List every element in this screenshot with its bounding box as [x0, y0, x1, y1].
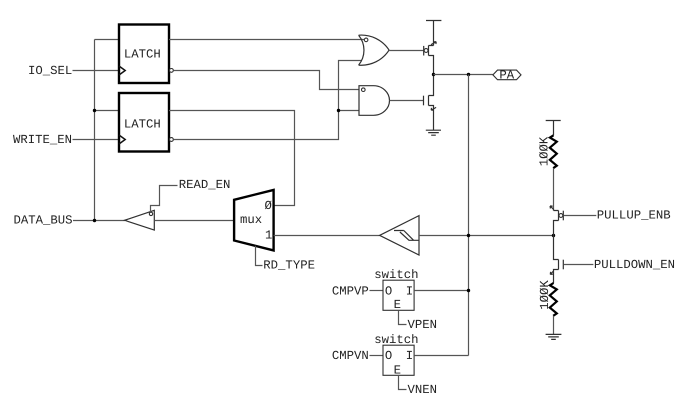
- wire bus to U1 D input: [95, 39, 120, 41]
- svg-text:O: O: [385, 284, 392, 298]
- wire driver to PA: [434, 74, 493, 76]
- svg-text:CMPVP: CMPVP: [332, 284, 369, 298]
- pin PA: [493, 69, 521, 83]
- vdd rail top: [426, 21, 441, 46]
- transistor Q2 nmos driver: [424, 75, 437, 131]
- latch U2: [119, 93, 173, 152]
- node T junction: [337, 109, 340, 112]
- node PA junction: [467, 73, 470, 76]
- svg-text:O: O: [385, 349, 392, 363]
- svg-text:1ØØK: 1ØØK: [538, 280, 552, 310]
- net label RD_TYPE: [263, 259, 315, 273]
- svg-text:1ØØK: 1ØØK: [537, 136, 551, 166]
- wire WRITE_EN to U2 clock: [73, 139, 120, 141]
- svg-text:1: 1: [265, 229, 272, 243]
- svg-text:CMPVN: CMPVN: [332, 349, 369, 363]
- switch U8: [374, 268, 418, 312]
- switch U9: [374, 333, 418, 378]
- svg-text:WRITE_EN: WRITE_EN: [13, 133, 72, 147]
- node switch1 junction: [467, 289, 470, 292]
- net label READ_EN: [179, 178, 231, 192]
- wire switch1 E to VPEN: [399, 310, 407, 324]
- svg-text:LATCH: LATCH: [124, 117, 161, 131]
- wire bus to U2 D input: [95, 110, 120, 112]
- svg-text:I: I: [406, 284, 413, 298]
- wire enable to READ_EN: [151, 186, 178, 213]
- net label WRITE_EN: [13, 133, 72, 147]
- svg-text:PA: PA: [499, 69, 514, 83]
- vdd rail pullup: [546, 121, 561, 136]
- node bus-DATA_BUS junction: [93, 219, 96, 222]
- wire junction branch to AND input: [339, 110, 360, 112]
- schmitt buffer U7: [380, 216, 419, 255]
- net label VNEN: [408, 383, 438, 397]
- latch U1: [119, 25, 173, 84]
- svg-text:Ø: Ø: [265, 199, 273, 213]
- svg-text:I: I: [406, 349, 413, 363]
- wire R1 to Q3: [553, 168, 555, 210]
- wire buffer input to mux output: [154, 220, 234, 222]
- wire switch2 E to VNEN: [399, 375, 407, 389]
- wire U2 Qbar to OR input: [173, 61, 362, 140]
- mux U6: [234, 190, 274, 251]
- wire switch1 I to main net: [414, 290, 468, 292]
- svg-text:IO_SEL: IO_SEL: [28, 64, 72, 78]
- svg-text:READ_EN: READ_EN: [179, 178, 231, 192]
- net label DATA_BUS: [14, 213, 73, 227]
- wire main vertical net: [468, 75, 470, 356]
- wire mux select to RD_TYPE: [256, 246, 263, 266]
- wire DATA_BUS horizontal: [73, 220, 125, 222]
- wire U2 Q to mux input 0: [169, 111, 295, 206]
- net label CMPVN: [332, 349, 369, 363]
- svg-text:LATCH: LATCH: [124, 47, 161, 61]
- wire U1 Qbar to AND input: [173, 71, 359, 90]
- ground under R2: [546, 334, 562, 339]
- node driver output junction: [432, 73, 435, 76]
- and-gate U4: [359, 86, 390, 116]
- wire Q3 gate to PULLUP_ENB: [564, 215, 597, 217]
- wire CMPVP to switch1 O: [370, 290, 384, 292]
- wire IO_SEL to U1 clock: [73, 70, 120, 72]
- wire schmitt input to main net: [419, 235, 554, 237]
- wire switch2 I to main net: [414, 355, 468, 357]
- net label PULLUP_ENB: [597, 208, 671, 222]
- net label VPEN: [408, 318, 438, 332]
- node pull network junction: [552, 234, 555, 237]
- net label CMPVP: [332, 284, 369, 298]
- wire AND output to NMOS gate: [390, 100, 424, 102]
- svg-text:PULLUP_ENB: PULLUP_ENB: [597, 208, 671, 222]
- wire OR output to PMOS gate: [389, 50, 423, 52]
- wire data bus vertical: [94, 40, 96, 221]
- or-gate U3: [359, 35, 390, 65]
- buffer U5 tri-state: [125, 210, 155, 230]
- node schmitt junction: [467, 234, 470, 237]
- ground under driver: [426, 130, 441, 135]
- svg-text:RD_TYPE: RD_TYPE: [263, 259, 315, 273]
- resistor R1: [537, 135, 556, 168]
- transistor Q3 pmos pullup: [550, 206, 563, 236]
- resistor R2: [538, 280, 557, 316]
- wire R2 to ground: [553, 316, 555, 335]
- svg-text:DATA_BUS: DATA_BUS: [14, 213, 73, 227]
- transistor Q4 nmos pulldown: [550, 236, 563, 284]
- node bus-U2D junction: [93, 109, 96, 112]
- transistor Q1 pmos driver: [424, 42, 437, 75]
- wire Q4 gate to PULLDOWN_EN: [564, 264, 594, 266]
- svg-text:VPEN: VPEN: [408, 318, 438, 332]
- wire U1 Q to OR input: [169, 39, 365, 41]
- svg-text:mux: mux: [240, 213, 262, 227]
- net label PULLDOWN_EN: [594, 258, 675, 272]
- svg-text:E: E: [394, 298, 401, 312]
- wire mux input 1 to schmitt output: [274, 235, 380, 237]
- svg-text:E: E: [394, 364, 401, 378]
- net label IO_SEL: [28, 64, 72, 78]
- wire CMPVN to switch2 O: [370, 355, 384, 357]
- svg-text:PULLDOWN_EN: PULLDOWN_EN: [594, 258, 675, 272]
- svg-text:VNEN: VNEN: [408, 383, 438, 397]
